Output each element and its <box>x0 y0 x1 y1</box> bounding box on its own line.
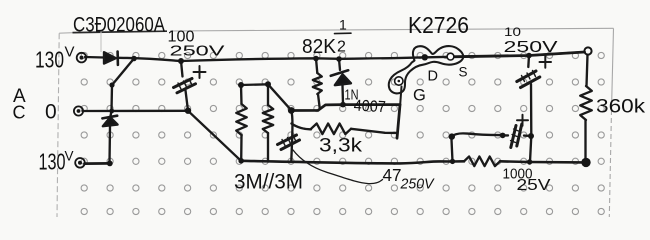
svg-text:V: V <box>65 44 75 61</box>
svg-text:C3Đ02060A: C3Đ02060A <box>73 14 165 37</box>
svg-text:1: 1 <box>339 17 347 33</box>
svg-text:V: V <box>65 149 74 164</box>
svg-text:K2726: K2726 <box>408 12 469 38</box>
svg-text:G: G <box>413 87 426 105</box>
svg-text:3M//3M: 3M//3M <box>234 171 303 194</box>
svg-text:C: C <box>13 103 26 123</box>
svg-text:250V: 250V <box>170 43 225 60</box>
svg-text:47: 47 <box>383 165 402 185</box>
svg-text:130: 130 <box>39 149 66 175</box>
svg-text:D: D <box>428 69 438 85</box>
svg-text:2: 2 <box>337 39 346 56</box>
svg-text:4007: 4007 <box>353 98 386 117</box>
svg-text:130: 130 <box>35 47 64 73</box>
svg-text:250V: 250V <box>400 176 436 193</box>
svg-text:3,3k: 3,3k <box>319 136 363 157</box>
svg-text:82K: 82K <box>302 36 337 58</box>
svg-text:10: 10 <box>504 25 521 39</box>
svg-text:0: 0 <box>45 101 57 124</box>
svg-text:25V: 25V <box>517 177 551 194</box>
svg-text:360k: 360k <box>596 97 646 118</box>
svg-text:S: S <box>459 65 468 80</box>
svg-text:250V: 250V <box>504 39 559 56</box>
